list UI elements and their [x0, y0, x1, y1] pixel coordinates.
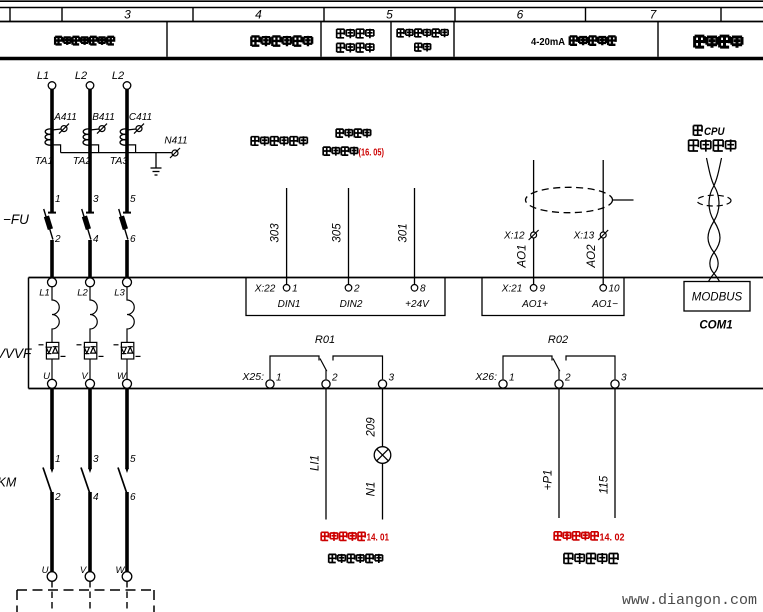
phase terminal L2 [86, 82, 94, 90]
input inductor L1 [52, 287, 59, 342]
svg-text:TA2: TA2 [73, 155, 92, 167]
motor dashed enclosure top [17, 589, 154, 591]
label: to CPU (zhi) [693, 125, 702, 135]
wire AO2 [602, 160, 604, 284]
wire 209 [382, 389, 384, 447]
CT bottom lead [90, 145, 99, 153]
label: communication interface [689, 139, 736, 151]
svg-text:B411: B411 [92, 112, 115, 123]
svg-text:X26:: X26: [474, 371, 497, 383]
caption red: inverter parameter (R01) [321, 532, 365, 541]
zone title cell6: comm interface [695, 36, 743, 48]
svg-text:AO2: AO2 [586, 244, 598, 269]
svg-text:2: 2 [564, 373, 571, 384]
wire 303 [286, 188, 288, 284]
terminal C411 [136, 126, 142, 132]
svg-text:AO1: AO1 [517, 244, 529, 268]
svg-text:L2: L2 [75, 70, 87, 82]
phase terminal L1 [48, 82, 56, 90]
contactor KM pole 1 blade [43, 468, 52, 494]
terminal block X:22 outline [246, 278, 445, 316]
input inductor L2 [90, 287, 97, 342]
svg-text:301: 301 [398, 223, 410, 242]
svg-text:L1: L1 [37, 70, 49, 82]
svg-text:N411: N411 [164, 136, 187, 147]
terminal A411 [61, 126, 67, 132]
contactor KM pole 3 blade [118, 468, 127, 494]
CT bottom lead [52, 145, 61, 153]
thyristor module pole L1 [39, 342, 66, 359]
svg-text:X25:: X25: [241, 371, 264, 383]
wire below KM pole 3 [125, 492, 129, 572]
caption: inverter running indication [329, 554, 383, 563]
svg-text:X:22: X:22 [254, 284, 276, 295]
header grid row 2 (function zone titles) [0, 22, 763, 59]
svg-text:TA3: TA3 [110, 155, 129, 167]
indicator lamp [374, 447, 391, 464]
wire to output terminal V [89, 359, 91, 379]
zone title cell1: inverter power control [55, 36, 114, 45]
phase wire to VVVF input [50, 240, 54, 278]
svg-text:14. 01: 14. 01 [367, 533, 390, 544]
current transformer TA3 [120, 129, 127, 145]
dashed motor lead W [126, 581, 128, 612]
phase terminal L2 [123, 82, 131, 90]
terminal X:21 pin 10 [600, 285, 607, 292]
dashed motor lead U [51, 581, 53, 612]
wire below KM pole 2 [88, 492, 92, 572]
phase wire to VVVF input [125, 240, 129, 278]
caption red: inverter parameter (R02) [554, 531, 598, 540]
fuse body pole 1 [44, 216, 53, 230]
wire to output terminal W [126, 359, 128, 379]
VVVF enclosure left edge [28, 278, 30, 389]
svg-text:3: 3 [621, 373, 627, 384]
svg-text:4-20mA: 4-20mA [531, 36, 565, 48]
svg-text:9: 9 [540, 284, 546, 295]
relay R01 pin 3 [378, 380, 386, 388]
input inductor L3 [127, 287, 134, 342]
svg-text:(16. 05): (16. 05) [359, 148, 385, 159]
thyristor module pole L3 [114, 342, 141, 359]
svg-text:2: 2 [54, 234, 61, 245]
phase wire L2 upper [88, 90, 92, 213]
motor wire from VVVF output pole 1 [50, 389, 54, 470]
svg-text:6: 6 [130, 492, 136, 503]
wire +P1 [558, 389, 560, 519]
svg-text:5: 5 [386, 8, 393, 22]
CT bottom lead [127, 145, 136, 153]
svg-text:X:12: X:12 [503, 231, 525, 242]
CT secondary lead to B411 [90, 129, 99, 130]
phase wire L2 upper [125, 90, 129, 213]
svg-text:3: 3 [93, 194, 99, 205]
fuse body pole 2 [82, 216, 91, 230]
svg-text:115: 115 [599, 475, 611, 494]
svg-text:3: 3 [389, 373, 395, 384]
svg-text:R02: R02 [548, 334, 568, 346]
cable shield ellipse [526, 187, 613, 212]
svg-text:1: 1 [292, 284, 298, 295]
contactor KM pole 2 blade [81, 468, 90, 494]
svg-text:−FU: −FU [3, 212, 29, 227]
shield tail wire [613, 199, 634, 201]
svg-text:A411: A411 [53, 112, 77, 123]
zone title cell3 line2: mode switch [337, 43, 374, 53]
VVVF enclosure top edge [29, 277, 763, 279]
thyristor module pole L2 [77, 342, 104, 359]
svg-text:VVVF: VVVF [0, 346, 32, 361]
terminal X:22 pin 1 [283, 285, 290, 292]
terminal B411 [99, 126, 105, 132]
svg-text:4: 4 [255, 8, 262, 22]
svg-text:3: 3 [93, 454, 99, 465]
relay R02 pin 1 [499, 380, 507, 388]
phase wire to VVVF input [88, 240, 92, 278]
relay R01 contact linkage [270, 356, 383, 379]
relay R01 pin 2 [322, 380, 330, 388]
terminal X:21 pin 9 [530, 285, 537, 292]
CT secondary lead to C411 [127, 129, 136, 130]
svg-text:10: 10 [609, 284, 621, 295]
ground symbol [151, 153, 162, 175]
svg-text:TA1: TA1 [35, 155, 53, 167]
svg-text:6: 6 [130, 234, 136, 245]
twisted pair wire B [709, 158, 721, 282]
wire 305 [348, 188, 350, 284]
svg-text:209: 209 [366, 417, 378, 438]
wire below KM pole 1 [50, 492, 54, 572]
svg-text:CPU: CPU [704, 126, 725, 138]
svg-text:L1: L1 [39, 288, 50, 299]
svg-text:5: 5 [130, 454, 136, 465]
CT secondary bus wire [61, 152, 172, 154]
phase wire L1 upper [50, 90, 54, 213]
header grid row 1 (column numbers) [0, 8, 763, 22]
svg-text:R01: R01 [315, 334, 335, 346]
svg-text:1: 1 [276, 373, 282, 384]
twisted pair shield ellipse [697, 195, 731, 206]
zone title cell3 line1: control [337, 29, 374, 39]
svg-text:3: 3 [124, 8, 131, 22]
svg-text:305: 305 [332, 223, 344, 243]
svg-text:2: 2 [331, 373, 338, 384]
MODBUS box [684, 282, 750, 312]
terminal X:22 pin 8 [411, 285, 418, 292]
svg-text:C411: C411 [129, 112, 152, 123]
fuse -FU pole 3 blade [119, 209, 128, 240]
svg-text:6: 6 [517, 8, 524, 22]
svg-text:303: 303 [270, 223, 282, 243]
svg-text:MODBUS: MODBUS [692, 292, 743, 304]
svg-text:LI1: LI1 [310, 455, 322, 471]
fuse -FU pole 1 blade [44, 209, 53, 240]
svg-text:X:13: X:13 [573, 231, 595, 242]
terminal X:13 [600, 232, 606, 238]
VVVF input terminal L2 [86, 278, 95, 287]
current transformer TA2 [83, 129, 90, 145]
svg-text:KM: KM [0, 476, 17, 490]
svg-text:AO1+: AO1+ [521, 299, 548, 310]
terminal X:22 pin 2 [345, 285, 352, 292]
svg-text:DIN1: DIN1 [278, 299, 301, 310]
label: mode switch (mid line2) [323, 147, 358, 156]
svg-text:1: 1 [55, 194, 61, 205]
svg-text:2: 2 [54, 492, 61, 503]
motor wire from VVVF output pole 2 [88, 389, 92, 470]
dashed motor lead V [89, 581, 91, 612]
label: inverter control (mid line1) [336, 129, 371, 138]
terminal N411 [172, 150, 178, 156]
svg-text:+P1: +P1 [543, 470, 555, 491]
motor dashed enclosure left [16, 590, 18, 612]
zone title cell4 line2: common [415, 43, 431, 52]
svg-text:1: 1 [509, 373, 515, 384]
current transformer TA1 [45, 129, 52, 145]
twisted pair wire A [707, 158, 719, 282]
svg-text:L3: L3 [114, 288, 125, 299]
svg-text:+24V: +24V [405, 299, 430, 310]
CT secondary lead to A411 [52, 129, 61, 130]
svg-text:2: 2 [353, 284, 360, 295]
fuse -FU pole 2 blade [82, 209, 91, 240]
caption: inverter fault [564, 553, 618, 564]
svg-text:1: 1 [55, 454, 61, 465]
svg-text:X:21: X:21 [501, 284, 523, 295]
wire AO1 [533, 160, 535, 284]
terminal X:12 [531, 232, 537, 238]
svg-text:L2: L2 [112, 70, 124, 82]
VVVF input terminal L3 [123, 278, 132, 287]
svg-text:COM1: COM1 [699, 320, 732, 332]
wire N1 [382, 463, 384, 519]
svg-text:www.diangon.com: www.diangon.com [622, 592, 757, 609]
svg-text:4: 4 [93, 234, 99, 245]
motor wire from VVVF output pole 3 [125, 389, 129, 470]
relay R01 pin 1 [266, 380, 274, 388]
zone title cell5 cjk part [570, 36, 616, 45]
relay R02 contact linkage [503, 356, 615, 379]
svg-text:14. 02: 14. 02 [600, 533, 625, 544]
terminal block X:21 outline [482, 278, 624, 316]
fuse body pole 3 [119, 216, 128, 230]
wire to output terminal U [51, 359, 53, 379]
VVVF input terminal L1 [48, 278, 57, 287]
svg-text:5: 5 [130, 194, 136, 205]
label: fixed speed (mid) [251, 136, 307, 146]
zone title cell4 line1: fixed speed ctrl [397, 29, 448, 38]
sheet top border [0, 0, 763, 2]
VVVF enclosure bottom edge [29, 388, 763, 390]
svg-text:L2: L2 [77, 288, 88, 299]
relay R02 pin 2 [555, 380, 563, 388]
wire 301 [414, 188, 416, 284]
relay R02 pin 3 [611, 380, 619, 388]
svg-text:DIN2: DIN2 [340, 299, 363, 310]
svg-text:AO1−: AO1− [591, 299, 618, 310]
wire LI1 [325, 389, 327, 520]
svg-text:N1: N1 [366, 482, 378, 497]
motor dashed enclosure right [153, 590, 155, 612]
wire 115 [614, 389, 616, 519]
zone title cell2: fixed speed [251, 36, 312, 46]
svg-text:8: 8 [420, 284, 426, 295]
svg-text:4: 4 [93, 492, 99, 503]
